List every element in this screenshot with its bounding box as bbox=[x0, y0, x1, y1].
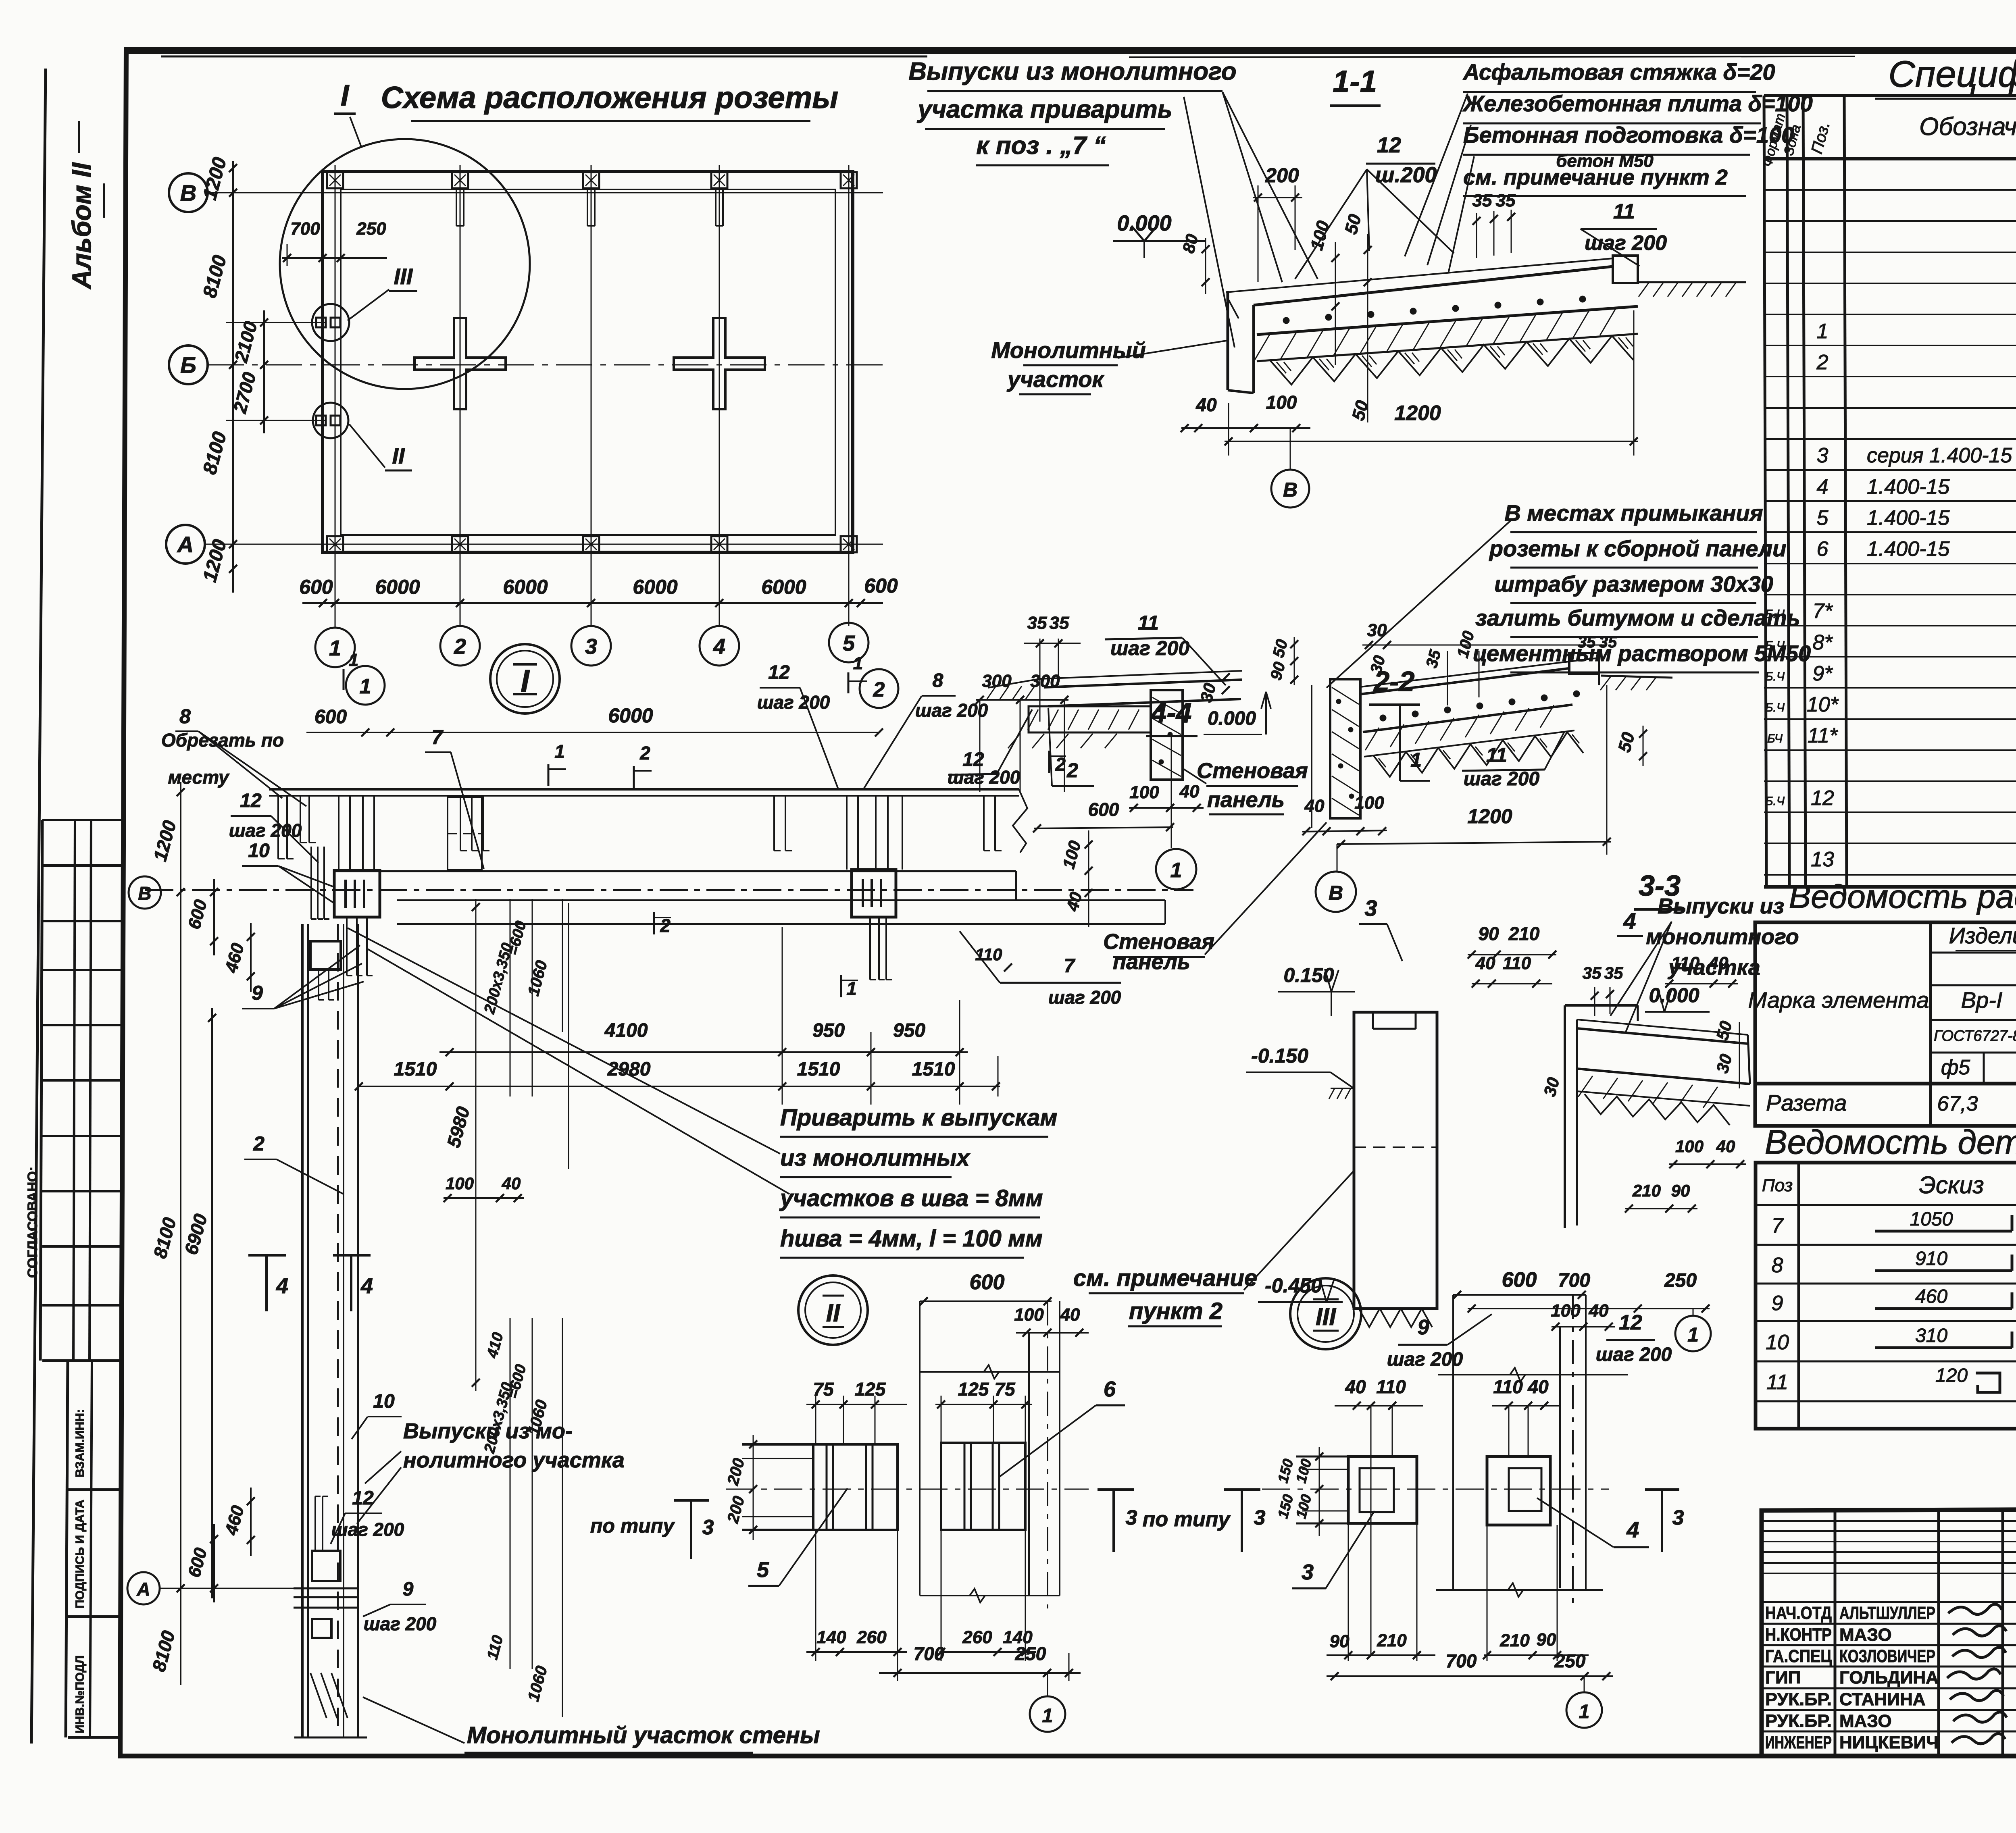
left wall circles II III bbox=[312, 304, 349, 341]
svg-text:Ведомость расхода стали на эле: Ведомость расхода стали на элемент, кг bbox=[1789, 878, 2016, 915]
svg-text:ф5: ф5 bbox=[1941, 1056, 1970, 1079]
svg-text:Б: Б bbox=[180, 352, 196, 378]
plan left dim line bbox=[232, 161, 234, 593]
svg-text:310: 310 bbox=[1915, 1325, 1947, 1346]
rot dims near wall mid bbox=[510, 899, 511, 1096]
svg-text:А: А bbox=[136, 1579, 150, 1600]
title block bbox=[1762, 1508, 2016, 1756]
svg-text:100: 100 bbox=[446, 1174, 474, 1193]
svg-text:шаг 200: шаг 200 bbox=[364, 1613, 437, 1634]
svg-text:110: 110 bbox=[1503, 953, 1531, 973]
5980 dim bbox=[475, 899, 477, 1391]
ground sawtooth under slab bbox=[1270, 336, 1633, 385]
svg-text:2: 2 bbox=[1816, 351, 1829, 374]
svg-text:910: 910 bbox=[1915, 1248, 1947, 1269]
leaders to privarit text bbox=[348, 928, 780, 1154]
axis circle B elevation bbox=[129, 876, 161, 909]
svg-text:Стеновая: Стеновая bbox=[1197, 759, 1308, 783]
d2 verticals bbox=[919, 1301, 921, 1596]
svg-text:1: 1 bbox=[349, 650, 358, 670]
svg-text:ГА.СПЕЦ: ГА.СПЕЦ bbox=[1765, 1646, 1832, 1666]
svg-text:Выпуски из монолитного: Выпуски из монолитного bbox=[908, 58, 1236, 85]
svg-text:8: 8 bbox=[933, 670, 943, 691]
33 ground hatch left of pedestal bbox=[1331, 1088, 1354, 1089]
svg-text:1: 1 bbox=[1687, 1323, 1699, 1346]
svg-text:НАЧ.ОТД: НАЧ.ОТД bbox=[1765, 1603, 1832, 1623]
svg-text:35: 35 bbox=[1604, 963, 1623, 982]
svg-text:БЧ: БЧ bbox=[1767, 732, 1783, 745]
svg-text:шаг 200: шаг 200 bbox=[1596, 1344, 1672, 1365]
d3 N break lines bbox=[1438, 1374, 1628, 1375]
svg-text:панель: панель bbox=[1113, 950, 1190, 974]
svg-text:4: 4 bbox=[276, 1274, 288, 1298]
svg-text:ГИП: ГИП bbox=[1765, 1668, 1801, 1687]
svg-text:75: 75 bbox=[994, 1379, 1016, 1400]
svg-text:40: 40 bbox=[1527, 1376, 1549, 1397]
svg-text:по типу: по типу bbox=[590, 1515, 675, 1537]
grid vertical lines bbox=[335, 165, 336, 626]
svg-text:А: А bbox=[177, 532, 194, 557]
cross column axis 2 bbox=[414, 318, 506, 409]
svg-text:700: 700 bbox=[1558, 1270, 1590, 1291]
svg-text:5: 5 bbox=[843, 631, 855, 655]
svg-text:Б.Ч: Б.Ч bbox=[1765, 670, 1785, 683]
svg-text:1510: 1510 bbox=[797, 1059, 840, 1080]
svg-text:Бетонная подготовка δ=100: Бетонная подготовка δ=100 bbox=[1463, 122, 1794, 148]
svg-text:4: 4 bbox=[360, 1274, 373, 1298]
svg-text:6000: 6000 bbox=[761, 576, 806, 598]
svg-text:цементным раствором 5М50: цементным раствором 5М50 bbox=[1473, 641, 1811, 666]
svg-text:90: 90 bbox=[1330, 1631, 1350, 1651]
svg-text:2: 2 bbox=[639, 743, 650, 764]
svg-text:3: 3 bbox=[585, 635, 597, 659]
svg-text:300: 300 bbox=[982, 671, 1012, 691]
svg-text:1: 1 bbox=[554, 741, 565, 762]
svg-text:-0.450: -0.450 bbox=[1265, 1274, 1322, 1297]
svg-text:9*: 9* bbox=[1812, 662, 1833, 685]
svg-text:ИНЖЕНЕР: ИНЖЕНЕР bbox=[1765, 1733, 1832, 1752]
svg-text:40: 40 bbox=[1179, 782, 1200, 801]
svg-text:Альбом II: Альбом II bbox=[67, 162, 96, 290]
svg-text:1: 1 bbox=[853, 653, 863, 673]
svg-text:6000: 6000 bbox=[633, 576, 677, 598]
svg-text:210: 210 bbox=[1508, 923, 1540, 944]
svg-text:40: 40 bbox=[1475, 953, 1495, 973]
column cluster A verticals bbox=[338, 796, 339, 870]
svg-text:2: 2 bbox=[1066, 759, 1078, 782]
hooks below box B bbox=[869, 917, 871, 980]
svg-text:РУК.БР.: РУК.БР. bbox=[1765, 1711, 1832, 1731]
hatch of podgotovka bbox=[1254, 334, 1270, 361]
svg-text:11: 11 bbox=[1486, 744, 1507, 766]
svg-text:СТАНИНА: СТАНИНА bbox=[1839, 1689, 1926, 1709]
hanging hooks left bbox=[277, 796, 279, 859]
svg-text:700: 700 bbox=[290, 219, 320, 239]
d3 left figure bbox=[1348, 1456, 1417, 1523]
svg-text:Поз: Поз bbox=[1762, 1176, 1793, 1195]
svg-text:ПОДПИСЬ И ДАТА: ПОДПИСЬ И ДАТА bbox=[73, 1500, 87, 1608]
svg-text:1: 1 bbox=[1042, 1705, 1053, 1727]
22 top dim line bbox=[1362, 645, 1605, 646]
svg-text:3: 3 bbox=[1302, 1560, 1314, 1584]
svg-text:3: 3 bbox=[1126, 1506, 1137, 1529]
svg-text:100: 100 bbox=[1266, 392, 1297, 413]
mid hooks 2 bbox=[773, 796, 775, 851]
svg-text:1: 1 bbox=[1817, 320, 1829, 343]
svg-text:11: 11 bbox=[1766, 1371, 1788, 1394]
svg-text:1: 1 bbox=[1170, 859, 1182, 882]
svg-text:67,3: 67,3 bbox=[1937, 1092, 1978, 1115]
svg-text:6: 6 bbox=[1104, 1377, 1116, 1401]
svg-text:0.000: 0.000 bbox=[1117, 211, 1171, 235]
svg-text:шаг 200: шаг 200 bbox=[1110, 637, 1189, 660]
rot dims near wall lower bbox=[510, 1318, 511, 1669]
svg-text:Б.Ч: Б.Ч bbox=[1765, 701, 1785, 714]
svg-text:120: 120 bbox=[1935, 1365, 1968, 1386]
svg-text:35: 35 bbox=[1583, 963, 1602, 982]
svg-text:210: 210 bbox=[1377, 1631, 1407, 1650]
svg-text:12: 12 bbox=[1377, 133, 1401, 157]
svg-text:12: 12 bbox=[1811, 786, 1834, 810]
svg-text:I: I bbox=[341, 79, 350, 112]
svg-text:4100: 4100 bbox=[604, 1020, 648, 1041]
svg-text:35: 35 bbox=[1496, 191, 1516, 210]
svg-text:200: 200 bbox=[1265, 164, 1299, 187]
svg-text:600: 600 bbox=[1502, 1268, 1537, 1292]
svg-text:КОЗЛОВИЧЕР: КОЗЛОВИЧЕР bbox=[1839, 1646, 1935, 1666]
svg-text:210: 210 bbox=[1632, 1181, 1661, 1200]
left dim verticals bbox=[180, 782, 181, 903]
svg-text:460: 460 bbox=[1915, 1286, 1947, 1307]
svg-text:12: 12 bbox=[352, 1488, 374, 1509]
svg-text:НИЦКЕВИЧ: НИЦКЕВИЧ bbox=[1839, 1733, 1939, 1752]
svg-text:40: 40 bbox=[1304, 796, 1325, 816]
d3 circled 1 bbox=[1584, 1676, 1585, 1692]
svg-text:1050: 1050 bbox=[1910, 1209, 1953, 1230]
top chord bbox=[269, 788, 1019, 791]
svg-text:Монолитный участок стены: Монолитный участок стены bbox=[467, 1722, 820, 1748]
svg-text:В: В bbox=[1329, 882, 1343, 904]
elevation axis circle 1 top bbox=[346, 666, 385, 705]
svg-text:1200: 1200 bbox=[1394, 402, 1441, 425]
svg-text:1-1: 1-1 bbox=[1333, 64, 1377, 99]
right end cap bbox=[1613, 256, 1638, 283]
svg-text:40: 40 bbox=[1716, 1137, 1735, 1156]
svg-text:210: 210 bbox=[1500, 1631, 1530, 1650]
svg-text:В: В bbox=[1283, 479, 1297, 501]
section 1-1 slab bbox=[1226, 258, 1613, 292]
svg-text:0.000: 0.000 bbox=[1208, 708, 1256, 729]
axis circle A elevation bbox=[127, 1572, 160, 1604]
svg-text:10*: 10* bbox=[1807, 693, 1839, 716]
d3 right figure bbox=[1487, 1456, 1550, 1525]
44 ground hatch left bbox=[988, 679, 1040, 688]
d2 right figure bbox=[941, 1443, 1025, 1530]
svg-text:90: 90 bbox=[1478, 923, 1499, 944]
wall column squares top bbox=[327, 172, 343, 188]
svg-text:шаг 200: шаг 200 bbox=[1048, 987, 1121, 1008]
d2 left figure bbox=[813, 1444, 898, 1530]
22 slab hatch bbox=[1365, 728, 1379, 750]
svg-text:1: 1 bbox=[1579, 1701, 1590, 1723]
cross column axis 4 bbox=[674, 318, 765, 409]
big detail circle I bbox=[280, 139, 530, 389]
svg-text:III: III bbox=[1316, 1303, 1336, 1330]
left margin stamp table lower bbox=[68, 1359, 121, 1362]
svg-text:Асфальтовая стяжка δ=20: Асфальтовая стяжка δ=20 bbox=[1462, 59, 1775, 85]
svg-text:участка приварить: участка приварить bbox=[916, 96, 1172, 123]
d2 circled 1 bbox=[1047, 1673, 1048, 1696]
svg-text:4: 4 bbox=[1626, 1517, 1639, 1542]
svg-text:260: 260 bbox=[962, 1627, 992, 1647]
ground line right bbox=[1638, 281, 1746, 283]
22 slab bbox=[1360, 658, 1599, 687]
specification table grid bbox=[1764, 96, 1766, 887]
svg-text:РУК.БР.: РУК.БР. bbox=[1765, 1689, 1832, 1709]
detail circle III bbox=[1290, 1278, 1361, 1349]
plan axis lines bbox=[208, 192, 883, 193]
svg-text:ш.200: ш.200 bbox=[1375, 163, 1437, 187]
svg-text:по типу: по типу bbox=[1143, 1508, 1231, 1531]
svg-text:Вр-I: Вр-I bbox=[1961, 987, 2003, 1013]
svg-text:110: 110 bbox=[1376, 1376, 1406, 1397]
svg-text:В: В bbox=[180, 180, 196, 206]
hooks below box A bbox=[346, 917, 348, 976]
svg-text:950: 950 bbox=[812, 1020, 845, 1041]
d3 centerline bbox=[1262, 1489, 1609, 1490]
svg-text:4: 4 bbox=[713, 635, 725, 659]
svg-text:ИНВ.№ПОДЛ: ИНВ.№ПОДЛ bbox=[73, 1655, 87, 1733]
svg-text:40: 40 bbox=[1195, 394, 1217, 415]
svg-text:12: 12 bbox=[240, 790, 262, 811]
svg-text:Ведомость деталей: Ведомость деталей bbox=[1765, 1123, 2016, 1161]
svg-text:1200: 1200 bbox=[1467, 805, 1512, 828]
po tipu T3 marks bbox=[1098, 1488, 1134, 1491]
section circle I bbox=[490, 644, 560, 714]
svg-text:Спецификация на разету: Спецификация на разету bbox=[1888, 54, 2016, 95]
svg-text:участок: участок bbox=[1006, 366, 1104, 392]
svg-text:АЛЬТШУЛЛЕР: АЛЬТШУЛЛЕР bbox=[1839, 1603, 1935, 1623]
svg-text:шаг 200: шаг 200 bbox=[229, 820, 302, 841]
right hooks bbox=[983, 796, 985, 851]
svg-text:Разета: Разета bbox=[1766, 1090, 1847, 1115]
grid circles 1-5 bbox=[335, 552, 336, 628]
svg-text:участка: участка bbox=[1667, 955, 1760, 980]
svg-text:2: 2 bbox=[873, 678, 885, 701]
svg-text:1.400-15: 1.400-15 bbox=[1867, 475, 1950, 499]
svg-text:600: 600 bbox=[864, 574, 898, 597]
svg-text:10: 10 bbox=[1766, 1331, 1789, 1354]
svg-text:3: 3 bbox=[1254, 1506, 1266, 1529]
svg-text:9: 9 bbox=[1418, 1316, 1429, 1339]
svg-text:Приварить к выпускам: Приварить к выпускам bbox=[780, 1105, 1057, 1131]
svg-text:Н.КОНТР: Н.КОНТР bbox=[1765, 1625, 1832, 1645]
svg-text:3: 3 bbox=[1672, 1506, 1684, 1529]
22 end cap bbox=[1569, 653, 1599, 674]
svg-text:Обозначение: Обозначение bbox=[1919, 113, 2016, 141]
left margin stamp table upper bbox=[42, 819, 123, 821]
svg-text:125: 125 bbox=[958, 1379, 989, 1400]
svg-text:12: 12 bbox=[768, 662, 790, 683]
svg-text:100: 100 bbox=[1675, 1137, 1704, 1156]
svg-text:9: 9 bbox=[403, 1579, 414, 1600]
svg-text:МАЗО: МАЗО bbox=[1839, 1625, 1892, 1645]
rebar dots bbox=[1283, 318, 1289, 323]
d2 N break lines bbox=[920, 1371, 1060, 1373]
44 wall panel bbox=[1151, 690, 1183, 780]
svg-text:11: 11 bbox=[1138, 612, 1159, 634]
svg-text:7*: 7* bbox=[1812, 599, 1833, 623]
outer thin margin line (left) bbox=[31, 69, 46, 1744]
plan inner dim line 2100/2700 bbox=[263, 310, 265, 433]
svg-text:5: 5 bbox=[1817, 506, 1829, 530]
svg-text:11: 11 bbox=[1613, 200, 1635, 223]
svg-text:90: 90 bbox=[1671, 1181, 1690, 1200]
svg-text:1: 1 bbox=[329, 636, 341, 660]
monolithic wall bbox=[1227, 291, 1229, 390]
d3 T3 mark right bbox=[1645, 1488, 1679, 1491]
anchor box A bbox=[334, 870, 380, 917]
svg-text:Выпуски из: Выпуски из bbox=[1658, 894, 1784, 918]
svg-text:1: 1 bbox=[1410, 749, 1422, 771]
steel table bbox=[1755, 922, 2016, 1126]
svg-text:6000: 6000 bbox=[375, 576, 420, 598]
svg-text:Изделия арматурные: Изделия арматурные bbox=[1949, 923, 2016, 948]
svg-text:300: 300 bbox=[1030, 671, 1060, 691]
plan walls bbox=[323, 171, 853, 552]
svg-text:8: 8 bbox=[179, 705, 191, 728]
svg-text:125: 125 bbox=[855, 1379, 886, 1400]
svg-text:0.000: 0.000 bbox=[1649, 984, 1699, 1007]
leaders from right notes bbox=[1405, 94, 1468, 256]
svg-text:250: 250 bbox=[356, 219, 386, 239]
svg-text:шаг 200: шаг 200 bbox=[1464, 768, 1540, 790]
svg-text:шаг 200: шаг 200 bbox=[948, 767, 1020, 788]
svg-text:250: 250 bbox=[1664, 1270, 1697, 1291]
svg-text:СОГЛАСОВАНО:: СОГЛАСОВАНО: bbox=[25, 1167, 40, 1278]
svg-text:III: III bbox=[394, 264, 413, 289]
svg-text:шаг 200: шаг 200 bbox=[1387, 1349, 1463, 1370]
svg-text:40: 40 bbox=[1060, 1305, 1080, 1325]
svg-text:600: 600 bbox=[970, 1271, 1005, 1294]
svg-text:250: 250 bbox=[1015, 1643, 1046, 1664]
svg-text:3: 3 bbox=[1817, 444, 1829, 467]
svg-text:110: 110 bbox=[1493, 1376, 1523, 1397]
svg-text:см. примечание пункт 2: см. примечание пункт 2 bbox=[1463, 165, 1728, 189]
svg-text:110: 110 bbox=[975, 945, 1002, 964]
axis circle B (top) bbox=[169, 173, 208, 212]
T4 marks bbox=[248, 1254, 286, 1257]
wall column squares bottom bbox=[327, 536, 343, 552]
svg-text:1.400-15: 1.400-15 bbox=[1867, 537, 1950, 561]
svg-text:2980: 2980 bbox=[607, 1059, 651, 1080]
d2 beam lines left bbox=[742, 1443, 813, 1446]
svg-text:7: 7 bbox=[1772, 1214, 1784, 1238]
svg-text:ГОСТ6727-80: ГОСТ6727-80 bbox=[1934, 1028, 2016, 1044]
svg-text:100: 100 bbox=[1551, 1301, 1581, 1321]
svg-text:260: 260 bbox=[856, 1627, 887, 1647]
svg-text:из монолитных: из монолитных bbox=[780, 1145, 971, 1171]
svg-text:II: II bbox=[826, 1299, 841, 1327]
svg-text:участков в шва = 8мм: участков в шва = 8мм bbox=[779, 1185, 1043, 1211]
svg-text:Выпуски из мо-: Выпуски из мо- bbox=[403, 1419, 573, 1443]
svg-text:Схема расположения розеты: Схема расположения розеты bbox=[381, 81, 838, 115]
svg-text:700: 700 bbox=[1446, 1650, 1477, 1671]
svg-text:шаг 200: шаг 200 bbox=[331, 1519, 404, 1540]
22 rebar dots bbox=[1380, 715, 1386, 721]
33 right foundation bbox=[1564, 1005, 1566, 1228]
leaders from note bbox=[1223, 92, 1282, 282]
column cluster B verticals bbox=[846, 796, 848, 870]
svg-text:9: 9 bbox=[252, 982, 263, 1004]
svg-text:700: 700 bbox=[914, 1643, 945, 1664]
svg-text:месту: месту bbox=[168, 767, 230, 788]
svg-text:Марка элемента: Марка элемента bbox=[1748, 987, 1929, 1013]
svg-text:-0.150: -0.150 bbox=[1251, 1044, 1308, 1067]
svg-text:6: 6 bbox=[1817, 537, 1829, 561]
22 wall panel bbox=[1330, 679, 1360, 818]
svg-text:см. примечание: см. примечание bbox=[1073, 1265, 1257, 1291]
svg-text:ГОЛЬДИНА: ГОЛЬДИНА bbox=[1839, 1668, 1939, 1687]
wall strip verticals bbox=[301, 924, 304, 1737]
circled B under 22 bbox=[1337, 844, 1338, 872]
svg-text:30: 30 bbox=[1367, 620, 1387, 640]
svg-text:В местах примыкания: В местах примыкания bbox=[1504, 500, 1763, 526]
svg-text:2: 2 bbox=[253, 1132, 264, 1155]
44 slab bbox=[1040, 671, 1242, 679]
svg-text:к поз . „7 “: к поз . „7 “ bbox=[976, 132, 1106, 160]
svg-text:hшва = 4мм, l = 100 мм: hшва = 4мм, l = 100 мм bbox=[780, 1225, 1043, 1252]
svg-text:В: В bbox=[138, 883, 151, 904]
svg-text:6000: 6000 bbox=[608, 704, 653, 727]
33 left pedestal bbox=[1354, 1012, 1437, 1309]
svg-text:600: 600 bbox=[299, 576, 333, 598]
svg-text:10: 10 bbox=[248, 840, 270, 861]
svg-text:250: 250 bbox=[1554, 1650, 1586, 1671]
svg-text:Монолитный: Монолитный bbox=[991, 337, 1146, 363]
svg-text:3: 3 bbox=[702, 1516, 714, 1539]
svg-text:шаг 200: шаг 200 bbox=[1585, 231, 1667, 255]
elevation axis circle 2 top bbox=[860, 669, 898, 708]
svg-text:11*: 11* bbox=[1808, 724, 1838, 747]
small box left bbox=[310, 941, 341, 970]
svg-text:8*: 8* bbox=[1812, 631, 1833, 654]
svg-text:7: 7 bbox=[1064, 955, 1076, 977]
svg-text:40: 40 bbox=[1345, 1376, 1366, 1397]
svg-text:40: 40 bbox=[1589, 1301, 1609, 1321]
d2 centerline bbox=[726, 1489, 1089, 1490]
svg-text:950: 950 bbox=[893, 1020, 925, 1041]
beam lines bbox=[335, 870, 1016, 872]
svg-text:35: 35 bbox=[1027, 613, 1047, 633]
svg-text:600: 600 bbox=[1088, 799, 1119, 820]
svg-text:7: 7 bbox=[431, 726, 444, 749]
svg-text:Б.Ч: Б.Ч bbox=[1765, 795, 1785, 808]
svg-text:1: 1 bbox=[360, 675, 371, 698]
svg-text:8: 8 bbox=[1772, 1254, 1783, 1277]
mid hooks bbox=[460, 796, 461, 851]
svg-text:40: 40 bbox=[502, 1174, 521, 1193]
svg-text:Железобетонная плита δ=100: Железобетонная плита δ=100 bbox=[1462, 91, 1813, 116]
svg-text:серия 1.400-15: серия 1.400-15 bbox=[1867, 444, 2012, 467]
svg-text:нолитного участка: нолитного участка bbox=[403, 1448, 625, 1472]
detail circle II bbox=[798, 1275, 868, 1345]
44 circled 1 bbox=[1171, 734, 1172, 848]
svg-text:35: 35 bbox=[1472, 191, 1492, 210]
svg-text:12: 12 bbox=[1619, 1311, 1642, 1334]
svg-text:2: 2 bbox=[454, 635, 466, 659]
anchor box B bbox=[852, 870, 896, 917]
